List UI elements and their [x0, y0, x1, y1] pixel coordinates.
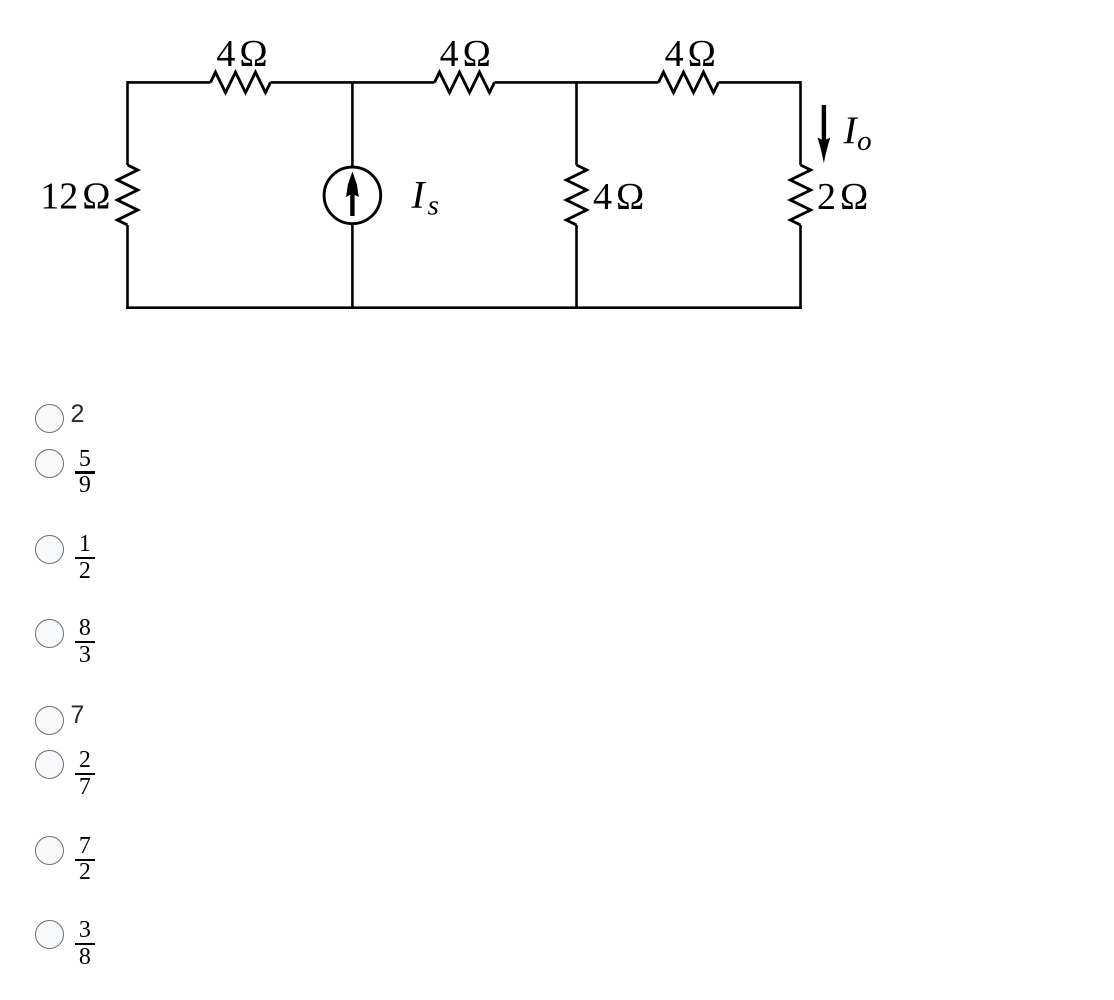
- current source Is circle: [324, 167, 381, 224]
- answer option 8 label: fraction 3/8: [75, 918, 95, 972]
- svg-text:4Ω: 4Ω: [216, 33, 267, 75]
- wire top rail segment B (R1 to source node): [271, 81, 353, 84]
- answer option 6: radio: [35, 750, 64, 779]
- wire bottom rail: [126, 306, 802, 309]
- resistor 4ohm top-2: [435, 72, 495, 92]
- wire middle branch lower (source to bottom rail): [351, 224, 354, 308]
- svg-text:4Ω: 4Ω: [593, 176, 644, 218]
- resistor 2ohm right: [790, 165, 810, 225]
- resistor 12ohm left: [117, 165, 137, 225]
- svg-text:4Ω: 4Ω: [440, 33, 491, 75]
- wire top rail segment C (source node to R2): [352, 81, 434, 84]
- answer option 3: radio: [35, 535, 64, 564]
- answer option 1: radio: [35, 404, 64, 433]
- answer option 5 label: 7: [71, 703, 85, 728]
- answer option 4: radio: [35, 619, 64, 648]
- svg-text:2Ω: 2Ω: [817, 176, 868, 218]
- resistor 4ohm top-1: [211, 72, 271, 92]
- answer option 3 label: fraction 1/2: [75, 532, 95, 586]
- wire branch-3 upper (top rail to R 4ohm vertical): [575, 82, 578, 165]
- answer option 1 label: 2: [71, 402, 85, 427]
- svg-text:Is: Is: [411, 172, 439, 221]
- answer option 6 label: fraction 2/7: [75, 748, 95, 802]
- wire middle branch upper (source to top rail): [351, 82, 354, 167]
- answer option 2 label: fraction 5/9: [75, 447, 95, 501]
- circuit schematic: [0, 0, 1114, 360]
- resistor 4ohm top-3: [659, 72, 719, 92]
- wire right rail lower: [799, 225, 802, 309]
- answer option 7 label: fraction 7/2: [75, 834, 95, 888]
- current arrow Io (pointing down): [818, 105, 831, 164]
- wire branch-3 lower: [575, 225, 578, 308]
- current source arrow (pointing up): [346, 172, 359, 217]
- answer option 8: radio: [35, 920, 64, 949]
- wire left rail lower: [126, 225, 129, 309]
- wire right rail upper: [799, 81, 802, 165]
- answer option 2: radio: [35, 449, 64, 478]
- wire top rail segment A (top-left corner to R1): [128, 81, 211, 84]
- answer option 7: radio: [35, 836, 64, 865]
- wire left rail upper: [126, 81, 129, 165]
- svg-text:Io: Io: [843, 108, 872, 157]
- resistor 4ohm vertical: [566, 165, 586, 225]
- answer option 5: radio: [35, 706, 64, 735]
- wire top rail segment D (R2 to mid node): [495, 81, 659, 84]
- svg-text:12Ω: 12Ω: [40, 176, 110, 218]
- answer option 4 label: fraction 8/3: [75, 616, 95, 670]
- svg-text:4Ω: 4Ω: [665, 33, 716, 75]
- wire top rail segment E (R3 to top-right corner): [719, 81, 801, 84]
